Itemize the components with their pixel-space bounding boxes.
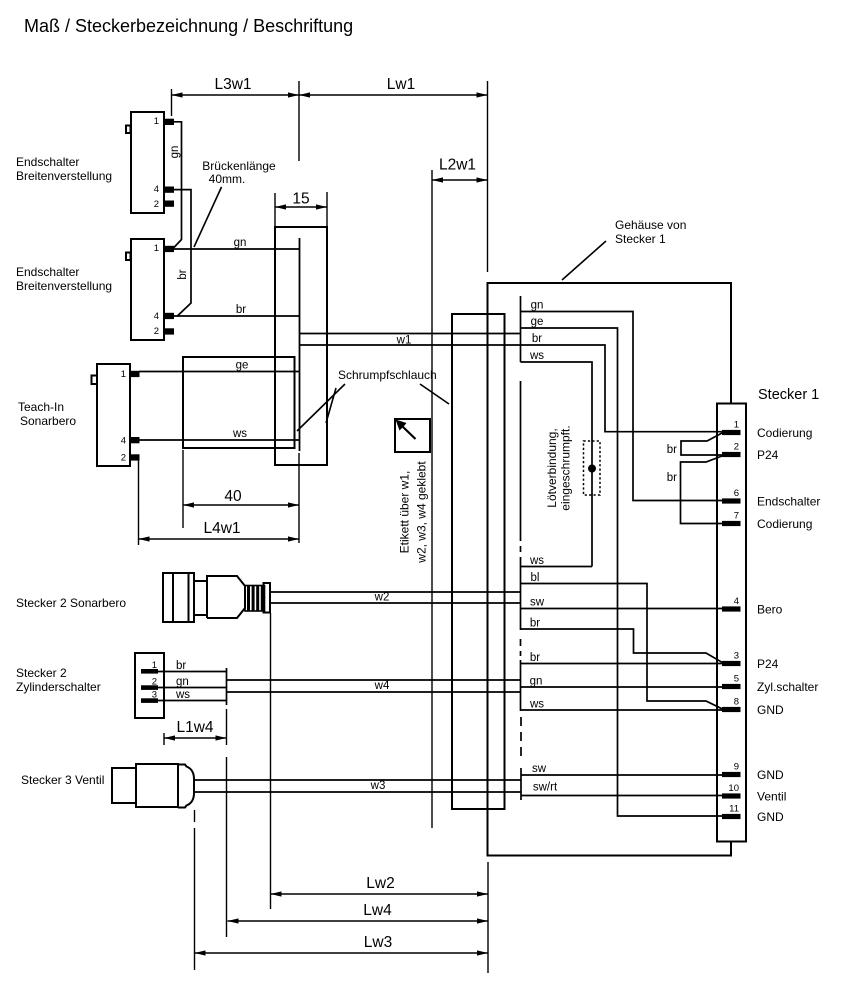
svg-text:w2: w2 <box>374 592 390 604</box>
svg-text:w2, w3, w4 geklebt: w2, w3, w4 geklebt <box>415 461 429 564</box>
svg-text:3: 3 <box>734 651 739 662</box>
svg-text:Teach-In: Teach-In <box>18 400 64 414</box>
svg-text:w1: w1 <box>396 335 412 347</box>
svg-text:3: 3 <box>152 690 157 701</box>
svg-text:2: 2 <box>734 442 739 453</box>
svg-text:Stecker 1: Stecker 1 <box>758 387 819 403</box>
svg-text:L3w1: L3w1 <box>214 76 251 93</box>
svg-text:gn: gn <box>531 300 544 312</box>
svg-text:eingeschrumpft.: eingeschrumpft. <box>559 425 573 510</box>
svg-text:sw: sw <box>532 763 547 775</box>
svg-text:Codierung: Codierung <box>757 517 812 531</box>
svg-text:GND: GND <box>757 768 784 782</box>
svg-text:15: 15 <box>292 191 309 208</box>
svg-text:Lw3: Lw3 <box>364 934 392 951</box>
svg-text:gn: gn <box>169 146 181 159</box>
svg-text:br: br <box>176 660 186 672</box>
svg-text:1: 1 <box>121 369 126 380</box>
svg-text:1: 1 <box>154 116 159 127</box>
svg-text:Breitenverstellung: Breitenverstellung <box>16 279 112 293</box>
svg-text:L2w1: L2w1 <box>439 157 476 174</box>
svg-text:br: br <box>530 652 540 664</box>
svg-text:2: 2 <box>154 326 159 337</box>
svg-text:Codierung: Codierung <box>757 426 812 440</box>
svg-text:br: br <box>530 618 540 630</box>
svg-text:1: 1 <box>152 660 157 671</box>
svg-text:Brückenlänge: Brückenlänge <box>202 159 276 173</box>
svg-text:Zylinderschalter: Zylinderschalter <box>16 680 101 694</box>
svg-text:br: br <box>667 444 677 456</box>
svg-text:gn: gn <box>176 676 189 688</box>
svg-text:8: 8 <box>734 697 739 708</box>
svg-text:br: br <box>667 472 677 484</box>
svg-text:gn: gn <box>234 237 247 249</box>
svg-text:Lw4: Lw4 <box>363 902 392 919</box>
svg-text:ws: ws <box>529 350 544 362</box>
svg-text:ws: ws <box>232 428 247 440</box>
svg-text:5: 5 <box>734 674 739 685</box>
svg-text:Lw2: Lw2 <box>366 875 394 892</box>
svg-text:2: 2 <box>154 199 159 210</box>
svg-text:40: 40 <box>224 488 242 505</box>
svg-text:Bero: Bero <box>757 603 783 617</box>
svg-text:L1w4: L1w4 <box>176 719 213 736</box>
svg-text:w4: w4 <box>374 680 390 692</box>
svg-text:GND: GND <box>757 703 784 717</box>
svg-text:6: 6 <box>734 488 739 499</box>
svg-text:L4w1: L4w1 <box>203 520 240 537</box>
svg-text:Stecker 3 Ventil: Stecker 3 Ventil <box>21 773 104 787</box>
svg-text:Lötverbindung,: Lötverbindung, <box>545 428 559 507</box>
svg-text:br: br <box>177 269 189 279</box>
svg-text:4: 4 <box>154 184 159 195</box>
svg-text:Breitenverstellung: Breitenverstellung <box>16 169 112 183</box>
svg-text:2: 2 <box>121 453 126 464</box>
svg-text:sw/rt: sw/rt <box>533 782 558 794</box>
svg-text:4: 4 <box>121 436 126 447</box>
svg-text:Gehäuse von: Gehäuse von <box>615 218 686 232</box>
svg-text:9: 9 <box>734 762 739 773</box>
svg-text:gn: gn <box>530 676 543 688</box>
svg-text:1: 1 <box>154 243 159 254</box>
svg-text:P24: P24 <box>757 448 779 462</box>
svg-text:Ventil: Ventil <box>757 790 786 804</box>
svg-text:br: br <box>236 304 246 316</box>
svg-text:ge: ge <box>236 360 249 372</box>
svg-text:4: 4 <box>154 311 159 322</box>
svg-text:ws: ws <box>529 555 544 567</box>
svg-text:br: br <box>532 333 542 345</box>
svg-text:P24: P24 <box>757 657 779 671</box>
svg-text:w3: w3 <box>370 780 386 792</box>
svg-text:1: 1 <box>734 420 739 431</box>
svg-text:Zyl.schalter: Zyl.schalter <box>757 680 818 694</box>
svg-text:Sonarbero: Sonarbero <box>20 414 76 428</box>
svg-text:Lw1: Lw1 <box>387 76 415 93</box>
svg-text:4: 4 <box>734 596 739 607</box>
svg-text:Schrumpfschlauch: Schrumpfschlauch <box>338 368 437 382</box>
svg-text:7: 7 <box>734 511 739 522</box>
svg-text:sw: sw <box>530 597 545 609</box>
svg-text:ws: ws <box>175 689 190 701</box>
svg-text:ws: ws <box>529 699 544 711</box>
svg-text:10: 10 <box>728 783 739 794</box>
svg-text:2: 2 <box>152 677 157 688</box>
svg-text:GND: GND <box>757 810 784 824</box>
svg-text:Stecker 2: Stecker 2 <box>16 666 67 680</box>
svg-text:Etikett über w1,: Etikett über w1, <box>398 471 412 554</box>
svg-text:Endschalter: Endschalter <box>16 265 79 279</box>
svg-text:ge: ge <box>531 316 544 328</box>
svg-text:Maß / Steckerbezeichnung / Bes: Maß / Steckerbezeichnung / Beschriftung <box>24 16 353 36</box>
svg-text:Endschalter: Endschalter <box>16 155 79 169</box>
svg-text:Endschalter: Endschalter <box>757 495 820 509</box>
svg-text:11: 11 <box>729 804 739 815</box>
svg-text:bl: bl <box>531 572 540 584</box>
svg-text:40mm.: 40mm. <box>209 172 246 186</box>
svg-text:Stecker 2 Sonarbero: Stecker 2 Sonarbero <box>16 596 126 610</box>
svg-text:Stecker 1: Stecker 1 <box>615 232 666 246</box>
